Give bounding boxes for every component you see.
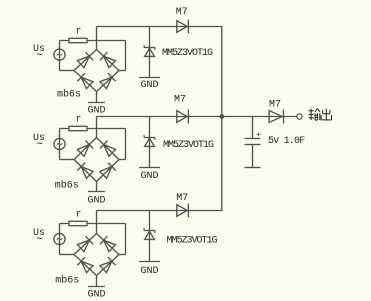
label mb6s (stage 2) — [55, 179, 79, 191]
zener diode MM5Z3VOT1G (stage 3) — [144, 228, 155, 239]
svg-text:~: ~ — [36, 50, 43, 62]
wire: rail to bridge 2 top corner — [96, 117, 98, 138]
wire: vertical bus joining stage rails — [221, 27, 223, 211]
wire: left vertical through source Us2 — [59, 129, 61, 160]
AC voltage source Us (stage 2) — [54, 138, 65, 149]
diode M7 (stage 2) — [177, 110, 189, 124]
label r (stage 1) — [75, 26, 81, 37]
wire: resistor r2 to right corner of bridge — [87, 129, 126, 160]
zener diode MM5Z3VOT1G (stage 2) — [144, 135, 155, 146]
wire: bridge 2 bottom corner to ground — [96, 182, 98, 192]
svg-text:MM5Z3VOT1G: MM5Z3VOT1G — [163, 140, 214, 151]
wire: stage 1 output rail to bus — [97, 26, 223, 28]
svg-text:GND: GND — [140, 171, 158, 182]
svg-text:mb6s: mb6s — [55, 275, 79, 287]
diode M7 (stage 1) — [177, 20, 189, 34]
wire: Us2 top lead to resistor r2 — [60, 128, 70, 130]
label ~ under Us (stage 1) — [36, 50, 43, 62]
label output 出 (second char) — [321, 109, 331, 121]
ground (zener 3) — [139, 262, 160, 277]
svg-text:mb6s: mb6s — [57, 88, 81, 100]
label r (stage 2) — [75, 114, 81, 125]
ground (zener 1) — [139, 78, 160, 92]
output terminal — [297, 114, 302, 119]
label M7 (output) — [269, 100, 281, 111]
label MM5Z3VOT1G (stage 3) — [167, 235, 218, 246]
wire: left vertical through source Us1 — [59, 41, 61, 71]
wire: rail through zener D2 to ground bar — [149, 117, 151, 168]
label MM5Z3VOT1G (stage 1) — [162, 48, 213, 59]
svg-text:~: ~ — [36, 139, 43, 151]
wire: Us3 bottom lead to bridge left corner — [60, 254, 75, 256]
bridge rectifier mb6s (stage 1) — [74, 50, 119, 92]
wire: resistor r1 to right corner of bridge — [87, 41, 126, 71]
wire: Us1 bottom lead to bridge left corner — [60, 70, 75, 72]
svg-text:~: ~ — [36, 234, 43, 246]
ground (bridge 3) — [87, 287, 105, 301]
label ~ under Us (stage 3) — [36, 234, 43, 246]
svg-text:M7: M7 — [176, 7, 188, 18]
label Us (stage 3) — [33, 228, 45, 239]
wire: stage 2 output rail to output diode — [97, 116, 297, 118]
svg-text:r: r — [75, 114, 81, 125]
bridge rectifier mb6s (stage 2) — [74, 138, 119, 182]
svg-text:M7: M7 — [269, 100, 281, 111]
label ~ under Us (stage 2) — [36, 139, 43, 151]
bridge rectifier mb6s (stage 3) — [74, 234, 119, 276]
ground (bridge 2) — [87, 192, 105, 207]
label Us (stage 2) — [33, 133, 45, 144]
diode M7 (output) — [269, 110, 283, 124]
wire: capacitor lead to rail — [252, 117, 254, 139]
svg-text:M7: M7 — [176, 193, 188, 204]
ground (zener 2) — [139, 168, 160, 182]
AC voltage source Us (stage 1) — [54, 49, 65, 60]
diode M7 (stage 3) — [177, 204, 189, 218]
wire: Us1 top lead to resistor r1 — [60, 40, 70, 42]
svg-text:MM5Z3VOT1G: MM5Z3VOT1G — [162, 48, 213, 59]
label M7 (stage 1) — [176, 7, 188, 18]
wire: left vertical through source Us3 — [59, 224, 61, 255]
wire: Us2 bottom lead to bridge left corner — [60, 159, 75, 161]
svg-text:r: r — [75, 209, 81, 220]
resistor r2 — [69, 126, 87, 130]
label r (stage 3) — [75, 209, 81, 220]
label mb6s (stage 3) — [55, 275, 79, 287]
label M7 (stage 2) — [174, 95, 186, 106]
wire: resistor r3 to right corner of bridge — [87, 224, 126, 255]
wire: rail through zener D1 to ground bar — [149, 27, 151, 78]
ground (bridge 1) — [87, 103, 105, 117]
zener diode MM5Z3VOT1G (stage 1) — [144, 45, 155, 56]
label 5v 1.0F — [268, 136, 305, 147]
svg-text:M7: M7 — [174, 95, 186, 106]
wire: stage 3 output rail to bus — [97, 210, 223, 212]
svg-text:GND: GND — [87, 290, 105, 301]
svg-text:GND: GND — [140, 80, 158, 91]
svg-text:GND: GND — [87, 105, 105, 116]
resistor r1 — [69, 38, 87, 42]
label MM5Z3VOT1G (stage 2) — [163, 140, 214, 151]
resistor r3 — [69, 221, 87, 225]
label Us (stage 1) — [33, 44, 45, 55]
label output 输 (first char) — [309, 109, 320, 121]
wire: bridge 3 bottom corner to ground — [96, 276, 98, 287]
capacitor C1 5v 1.0F — [245, 133, 261, 168]
wire: Us3 top lead to resistor r3 — [60, 223, 70, 225]
svg-text:mb6s: mb6s — [55, 179, 79, 191]
AC voltage source Us (stage 3) — [54, 233, 65, 244]
wire: rail to bridge 3 top corner — [96, 211, 98, 234]
wire: bridge 1 bottom corner to ground — [96, 92, 98, 103]
svg-text:r: r — [75, 26, 81, 37]
wire: rail through zener D3 to ground bar — [149, 211, 151, 262]
label M7 (stage 3) — [176, 193, 188, 204]
svg-text:MM5Z3VOT1G: MM5Z3VOT1G — [167, 235, 218, 246]
svg-text:GND: GND — [140, 266, 158, 277]
svg-text:5v 1.0F: 5v 1.0F — [268, 136, 305, 147]
wire: rail to bridge 1 top corner — [96, 27, 98, 50]
junction: bus and stage-2 rail — [219, 114, 224, 119]
svg-text:GND: GND — [87, 195, 105, 206]
label mb6s (stage 1) — [57, 88, 81, 100]
